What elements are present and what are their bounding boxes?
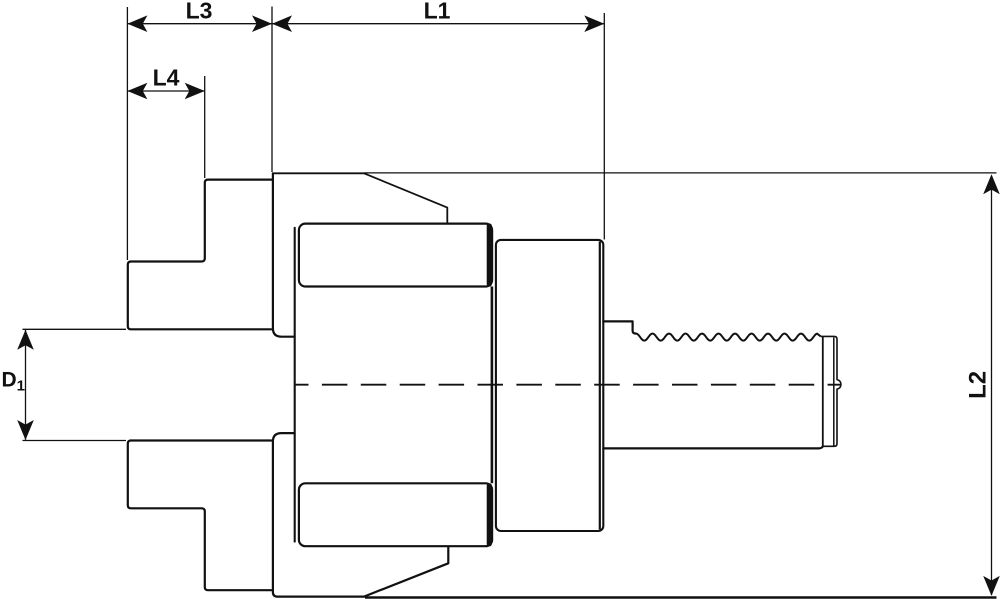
dimension L2 arrow down [983, 576, 1000, 596]
svg-text:L2: L2 [965, 371, 992, 399]
collar disc outline [496, 240, 603, 531]
body front face upper with bore wall [273, 173, 295, 336]
extension line at collar right x=604.3 [603, 13, 605, 240]
shank bottom edge [603, 446, 823, 448]
extension line L2 bottom [365, 596, 997, 599]
extension line at flange left x=127 [126, 7, 128, 260]
svg-text:L4: L4 [153, 65, 180, 91]
dimension L4 line [127, 90, 204, 92]
centerline dashed [295, 384, 841, 386]
dimension L1 arrow left [272, 15, 292, 32]
body bottom chamfer [364, 547, 448, 597]
body front face lower with bore wall [273, 433, 364, 596]
flange claw lower outline [128, 441, 271, 591]
extension line at flange step x=204.7 [204, 76, 206, 178]
shank end groove left line [822, 337, 824, 448]
shank end groove right line [833, 337, 835, 446]
svg-text:L3: L3 [186, 0, 213, 24]
shank end face with center notch [821, 336, 841, 446]
extension line L2 top [364, 172, 997, 174]
flange claw upper outline [128, 180, 272, 330]
dimension L3 line [127, 23, 272, 25]
extension line at body face x=272 [271, 7, 273, 173]
clamp nut lower band [299, 483, 492, 546]
dimension L2 line [991, 176, 993, 595]
svg-text:L1: L1 [424, 0, 451, 24]
dimension L1 line [272, 23, 604, 25]
clamp nut upper band thick right edge [487, 226, 492, 284]
shank top edge with step [603, 321, 635, 333]
clamp nut lower band thick right edge [487, 486, 492, 544]
dimension L4 arrow right [185, 83, 205, 100]
extension line D1 bottom [23, 440, 127, 442]
clamp nut upper band [299, 224, 492, 287]
dimension L1 arrow right [584, 15, 604, 32]
shank serration wave [635, 334, 821, 341]
body cylinder rear edge [491, 287, 494, 484]
collar disc inner right edge [599, 242, 601, 530]
body cylinder front edge [294, 228, 296, 542]
dimension L3 arrow left [127, 15, 147, 32]
extension line D1 top [23, 328, 127, 330]
dimension L3 arrow right [252, 15, 272, 32]
body top edge and chamfer [273, 173, 447, 224]
dimension L2 arrow up [983, 174, 1000, 194]
dimension L4 arrow left [127, 83, 147, 100]
dimension D1 line [25, 330, 27, 440]
dimension D1 arrow down [17, 420, 34, 440]
dimension D1 arrow up [17, 330, 34, 350]
